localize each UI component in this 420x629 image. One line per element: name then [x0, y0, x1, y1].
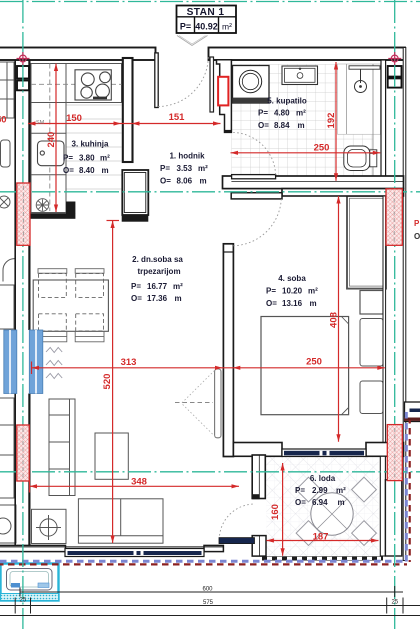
dim 408 vertical	[338, 196, 340, 442]
svg-text:O=: O=	[160, 176, 171, 185]
kitchen fan symbol	[36, 199, 49, 212]
loggia south parapet dashed	[262, 556, 383, 560]
washbasin	[282, 66, 318, 85]
svg-text:10.20: 10.20	[282, 287, 303, 296]
neighbour loggia window fragment right	[410, 409, 420, 413]
REDDIMS	[17, 52, 402, 556]
axis marker right	[388, 52, 401, 65]
radiator zigzags	[46, 348, 62, 379]
top exterior wall right of entrance	[209, 48, 406, 61]
bathroom east wall band	[381, 60, 386, 189]
dim 187	[266, 540, 378, 542]
loggia door arc	[219, 504, 255, 540]
svg-text:m²: m²	[308, 287, 318, 296]
svg-text:m²: m²	[336, 486, 346, 495]
loggia east wall double	[380, 456, 385, 556]
entrance door leaf	[155, 53, 158, 108]
svg-text:m: m	[102, 166, 109, 175]
sofa south section	[78, 499, 163, 543]
partition wall living/soba	[223, 244, 233, 457]
left neighbour wall line lower	[14, 394, 16, 547]
svg-text:P: P	[414, 219, 420, 228]
svg-text:250: 250	[314, 142, 330, 153]
upper cabinet dashed lines kitchen	[31, 64, 122, 212]
HATCHES	[17, 183, 403, 481]
dim 150-151 line	[28, 123, 221, 125]
svg-text:STAN 1: STAN 1	[187, 7, 225, 18]
shaft boxes top-left	[17, 66, 29, 79]
neighbour boundary fragment right	[404, 418, 420, 421]
svg-text:187: 187	[313, 531, 329, 542]
svg-text:4.80: 4.80	[274, 109, 290, 118]
title pointer V	[177, 36, 208, 46]
svg-text:16.77: 16.77	[147, 282, 168, 291]
top exterior wall left of entrance	[0, 48, 156, 61]
coffee table living room	[95, 433, 128, 479]
bathroom west wall stepped	[217, 60, 232, 133]
chair top-left	[38, 269, 67, 298]
svg-text:8.06: 8.06	[177, 176, 193, 185]
svg-text:trpezarijom: trpezarijom	[137, 267, 180, 276]
bed	[261, 317, 349, 415]
fridge cabinet	[122, 170, 148, 215]
dim 192 vertical	[335, 62, 337, 181]
red hatch pier left lower	[17, 425, 29, 481]
entrance door arc	[158, 55, 208, 107]
loggia door leaf navy	[219, 538, 255, 544]
title block	[177, 6, 237, 34]
svg-text:2. dn.soba sa: 2. dn.soba sa	[132, 255, 183, 264]
svg-text:O=: O=	[131, 294, 142, 303]
svg-text:25: 25	[19, 598, 26, 604]
nightstand room4	[360, 291, 383, 315]
dim 250 bathroom	[231, 152, 381, 154]
svg-text:P=: P=	[295, 486, 305, 495]
svg-text:m²: m²	[100, 154, 110, 163]
loggia east parapet box	[385, 480, 401, 556]
shower head	[349, 66, 380, 93]
chair bottom-right	[75, 314, 104, 342]
west window our band	[29, 330, 43, 394]
svg-text:151: 151	[169, 112, 186, 123]
west window neighbour band	[4, 330, 17, 394]
right exterior wall double line	[403, 48, 406, 561]
svg-text:m²: m²	[173, 282, 183, 291]
kitchen counter L	[31, 64, 122, 213]
svg-text:25: 25	[391, 600, 398, 606]
FURNITURE	[0, 62, 386, 601]
svg-text:520: 520	[102, 374, 113, 390]
svg-text:m²: m²	[222, 22, 232, 32]
soba east wall inner double	[383, 196, 386, 443]
svg-text:m: m	[310, 299, 317, 308]
soba door leaf	[231, 193, 282, 199]
svg-text:P=: P=	[258, 109, 268, 118]
WINDOWS	[0, 330, 420, 564]
pillow 1	[360, 319, 383, 367]
loggia diagonal tile floor	[266, 457, 378, 557]
sofa west section	[49, 399, 75, 496]
svg-text:6. loda: 6. loda	[310, 474, 336, 483]
boundary dashed blue horizontal	[0, 560, 407, 563]
axis horizontal lower	[0, 471, 420, 473]
svg-text:50: 50	[0, 115, 7, 126]
svg-text:348: 348	[131, 476, 147, 487]
svg-text:m²: m²	[198, 164, 208, 173]
neighbour loggia box bottom-left	[1, 564, 59, 601]
soba north wall	[282, 189, 404, 196]
kitchen floor joint lines	[66, 105, 122, 189]
svg-text:13.16: 13.16	[282, 299, 303, 308]
svg-text:2.99: 2.99	[312, 486, 328, 495]
svg-text:m: m	[175, 294, 182, 303]
corner table with lamp	[32, 509, 67, 543]
svg-text:40.92: 40.92	[195, 22, 218, 32]
loggia door south jamb	[252, 536, 266, 557]
svg-text:O: O	[414, 232, 420, 241]
svg-text:150: 150	[66, 113, 82, 124]
svg-text:160: 160	[270, 504, 281, 520]
south window living room	[0, 547, 223, 557]
svg-text:575: 575	[203, 600, 214, 606]
boundary dashed blue vertical	[405, 412, 408, 562]
bathroom door arc	[232, 132, 276, 174]
bottom border line	[0, 615, 420, 617]
chair bottom-left	[38, 314, 67, 342]
dim 313-250 line	[32, 367, 385, 369]
axis vertical right	[394, 0, 396, 629]
axis horizontal middle	[0, 191, 420, 193]
soba south wall east part	[366, 443, 404, 457]
svg-text:P=: P=	[160, 164, 170, 173]
neighbour parapet box right	[405, 402, 420, 422]
living room south wall west part	[0, 545, 66, 551]
loggia round table	[311, 493, 353, 535]
toilet	[344, 146, 377, 171]
dim 240 vertical	[55, 64, 57, 213]
svg-text:600: 600	[202, 587, 213, 593]
left neighbour wall line upper	[14, 60, 16, 330]
shower glass line	[346, 64, 348, 134]
boundary dashed red vertical	[409, 420, 411, 562]
dim 520 vertical	[112, 221, 114, 544]
entrance jamb fin	[210, 57, 214, 112]
our west wall line upper	[28, 60, 30, 330]
svg-text:P=: P=	[266, 287, 276, 296]
svg-text:3. kuhinja: 3. kuhinja	[72, 140, 109, 149]
red hatch pier right lower	[387, 425, 402, 481]
wardrobe room4	[347, 196, 386, 289]
washing machine	[233, 66, 270, 104]
svg-text:SM: SM	[36, 120, 45, 126]
svg-text:m²: m²	[296, 109, 306, 118]
svg-text:250: 250	[306, 357, 322, 368]
kitchen south wall	[28, 213, 75, 219]
svg-text:17.36: 17.36	[147, 294, 168, 303]
chair top-right	[75, 269, 104, 298]
our west wall line lower	[28, 394, 30, 546]
svg-text:3.80: 3.80	[79, 154, 95, 163]
shaft boxes top-right	[388, 66, 402, 77]
svg-text:P=: P=	[63, 154, 73, 163]
axis vertical left	[22, 0, 24, 629]
loggia chairs	[296, 477, 376, 545]
svg-text:O=: O=	[63, 166, 74, 175]
soba south wall west part	[233, 443, 282, 457]
dim line 600	[20, 591, 403, 593]
svg-text:m: m	[200, 176, 207, 185]
svg-text:408: 408	[329, 312, 340, 328]
red cabinet rect hodnik	[218, 77, 228, 106]
bathroom tiled floor	[231, 64, 372, 176]
svg-text:P=: P=	[131, 282, 141, 291]
dining table	[33, 280, 108, 331]
svg-text:8.40: 8.40	[79, 166, 95, 175]
svg-text:6.94: 6.94	[312, 498, 328, 507]
axis marker left	[17, 52, 30, 65]
svg-text:192: 192	[326, 113, 337, 129]
kitchen hodnik wall	[123, 58, 133, 162]
loggia fine grid floor	[266, 457, 378, 557]
soba door arc	[232, 199, 282, 246]
svg-text:313: 313	[121, 357, 137, 368]
sliding door leaf living/soba	[215, 369, 221, 438]
red hatch pier left upper	[17, 183, 30, 245]
svg-text:P=: P=	[180, 22, 191, 32]
living room south wall east part	[204, 545, 223, 551]
FLOORS	[66, 64, 381, 556]
shower zone white	[338, 64, 381, 134]
svg-text:O=: O=	[266, 299, 277, 308]
dim 160 vertical	[282, 463, 284, 556]
svg-text:3.53: 3.53	[177, 164, 193, 173]
dim 348	[30, 485, 240, 487]
sliding door swing dotted	[182, 371, 216, 437]
red hatch pier right upper	[386, 189, 402, 246]
boundary dashed red horizontal	[0, 563, 407, 565]
stove	[75, 70, 111, 100]
svg-text:240: 240	[46, 132, 57, 148]
svg-text:m: m	[298, 121, 305, 130]
kitchen sink	[38, 141, 65, 166]
svg-text:m: m	[338, 498, 345, 507]
svg-text:O=: O=	[258, 121, 269, 130]
loggia west wall	[252, 455, 265, 499]
svg-text:5. kupatilo: 5. kupatilo	[267, 97, 307, 106]
svg-text:O=: O=	[295, 498, 306, 507]
bathroom inner east line	[372, 64, 374, 176]
svg-text:1. hodnik: 1. hodnik	[169, 152, 205, 161]
dim line 575+25	[0, 605, 420, 607]
axis horizontal top	[0, 1, 420, 3]
neighbour fixtures left strip	[0, 62, 16, 543]
bathroom door leaf	[232, 175, 276, 179]
bathroom south wall	[223, 176, 404, 189]
svg-text:4. soba: 4. soba	[278, 274, 306, 283]
svg-text:8.84: 8.84	[274, 121, 290, 130]
window soba-loggia	[282, 449, 366, 457]
pillow 2	[360, 381, 383, 414]
